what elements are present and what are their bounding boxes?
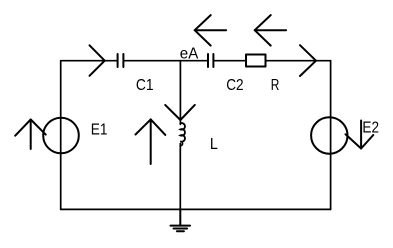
svg-text:eA: eA: [180, 46, 199, 63]
source E1: [43, 118, 79, 154]
ground: [171, 209, 191, 231]
wire top rail left segment: [61, 60, 117, 62]
current arrow on top-right wire: [300, 45, 316, 76]
wire middle branch lower: [179, 144, 181, 210]
svg-text:C1: C1: [136, 77, 154, 94]
current arrow on top-left wire: [90, 45, 105, 76]
capacitor C2: [208, 54, 213, 67]
resistor R: [246, 55, 266, 67]
wire right branch: [330, 61, 332, 210]
wire middle branch upper: [179, 61, 181, 125]
wire C2 to R: [214, 60, 246, 62]
voltage arrow beside L: [136, 119, 166, 164]
inductor L: [180, 123, 185, 146]
svg-text:L: L: [210, 136, 218, 153]
wire R to top-right corner: [266, 60, 331, 62]
flux arrow left 2: [255, 15, 286, 45]
source E2: [311, 117, 347, 153]
E2 direction arrow: [346, 121, 374, 149]
capacitor C1: [118, 54, 124, 67]
svg-text:R: R: [271, 77, 280, 94]
flux arrow left 1: [195, 15, 226, 45]
wire left branch: [60, 61, 62, 210]
svg-text:E1: E1: [91, 121, 108, 138]
svg-text:E2: E2: [362, 120, 379, 137]
svg-text:C2: C2: [226, 77, 243, 94]
wire bottom rail: [61, 208, 331, 210]
E1 direction arrow: [15, 120, 46, 150]
current arrow on middle branch: [165, 105, 195, 120]
wire C1 to C2 through node eA: [124, 60, 207, 62]
